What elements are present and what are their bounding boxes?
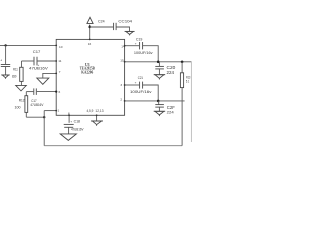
svg-text:11: 11 <box>58 59 61 63</box>
svg-text:12,13: 12,13 <box>95 109 103 113</box>
wire C19 to net15 <box>143 46 158 62</box>
svg-text:15: 15 <box>120 59 124 63</box>
wire pin1 stub <box>44 110 56 112</box>
wire pin3 to C21 <box>125 84 140 86</box>
node junction C20 <box>157 61 160 64</box>
VCC power symbol <box>87 17 93 27</box>
ground (C15) <box>1 75 9 79</box>
wire pin8 stub <box>68 115 70 123</box>
wire schematic crop edge <box>190 62 192 142</box>
svg-text:100UF/16v: 100UF/16v <box>130 89 151 94</box>
node junction C15 branch <box>4 44 6 46</box>
wire C17 to R11 <box>22 60 34 62</box>
wire pin6 to C17b <box>37 91 56 93</box>
svg-text:R12: R12 <box>19 99 25 103</box>
wire R12 to node A <box>26 116 44 118</box>
op-amp U3 IC body <box>56 39 124 115</box>
svg-text:3: 3 <box>120 83 122 87</box>
svg-text:47UB16V: 47UB16V <box>71 128 84 132</box>
wire down to C15 <box>5 45 7 64</box>
svg-text:224: 224 <box>167 70 175 75</box>
svg-text:CC104: CC104 <box>118 19 132 24</box>
ground (IC pins 4,5,9,12,13) <box>91 121 103 126</box>
svg-text:10: 10 <box>59 45 63 49</box>
wire C21 down to pin2 net <box>143 85 158 101</box>
svg-text:C18: C18 <box>74 120 80 124</box>
node junction C22 <box>157 100 160 103</box>
svg-text:8: 8 <box>68 112 70 116</box>
svg-text:16: 16 <box>88 42 92 46</box>
capacitor C17 <box>34 57 37 66</box>
wire C18 to ground <box>68 128 70 134</box>
wire pin16 to VCC <box>89 27 91 39</box>
svg-text:100: 100 <box>15 106 21 110</box>
svg-text:KA2206: KA2206 <box>81 70 93 75</box>
capacitor C17b <box>34 88 37 95</box>
svg-text:C24: C24 <box>98 19 105 24</box>
svg-text:224: 224 <box>167 110 175 115</box>
wire pin11 to C17 <box>37 60 56 62</box>
wire pin15 net <box>125 61 192 63</box>
ground (C20) <box>154 75 166 80</box>
wire C24 to ground <box>117 27 130 31</box>
wire rail up to R1 <box>181 88 183 146</box>
svg-text:47UB16V: 47UB16V <box>29 67 48 71</box>
capacitor C19 <box>140 42 143 49</box>
ground (R11) <box>16 85 27 91</box>
wire pin7 to ground <box>43 73 56 78</box>
svg-text:+: + <box>70 119 72 123</box>
wire pin2 net <box>125 100 185 102</box>
capacitor C15 <box>1 65 10 67</box>
svg-text:C17: C17 <box>33 50 41 54</box>
svg-text:+: + <box>135 80 137 84</box>
ground (C22) <box>154 111 166 116</box>
wire node A vertical <box>43 111 45 146</box>
wire bottom rail <box>44 145 182 147</box>
svg-text:4,5,9: 4,5,9 <box>86 109 93 113</box>
resistor R1 <box>180 62 183 88</box>
wire C17b to R12 <box>26 91 33 93</box>
svg-text:830: 830 <box>12 75 17 79</box>
svg-text:6: 6 <box>59 90 61 94</box>
svg-text:C19: C19 <box>136 37 143 41</box>
resistor R12 <box>25 92 28 118</box>
svg-text:R11: R11 <box>13 68 18 72</box>
node A junction <box>43 116 45 118</box>
wire IC ground stub <box>96 115 98 121</box>
svg-text:14: 14 <box>121 45 125 49</box>
node junction R1 <box>181 61 184 64</box>
node pin connection dots <box>55 39 125 117</box>
wire C15 to ground <box>5 67 7 75</box>
ground (pin7) <box>37 78 49 84</box>
resistor R11 <box>20 61 23 85</box>
node junction at VCC branch <box>89 26 91 28</box>
svg-text:2: 2 <box>120 98 122 102</box>
svg-text:100UF/16v: 100UF/16v <box>134 51 153 55</box>
capacitor C18 <box>64 124 74 127</box>
ground (C18) <box>60 134 76 141</box>
svg-text:7: 7 <box>59 70 61 74</box>
svg-text:+: + <box>135 42 137 46</box>
svg-text:+: + <box>0 58 2 62</box>
wire pin10 net <box>0 44 56 46</box>
capacitor C21 <box>140 82 143 89</box>
svg-text:5.1: 5.1 <box>186 80 190 84</box>
svg-text:47UB16V: 47UB16V <box>30 103 44 107</box>
capacitor C20 <box>155 62 164 75</box>
wire pin14 to C19 <box>125 45 140 47</box>
capacitor C22 <box>155 101 164 111</box>
node junction pin6 <box>55 91 57 93</box>
ground (CC104) <box>125 31 135 35</box>
svg-text:1: 1 <box>58 109 60 113</box>
svg-text:C21: C21 <box>138 76 143 80</box>
capacitor C24 <box>114 23 117 30</box>
wire to C24 <box>90 26 114 28</box>
